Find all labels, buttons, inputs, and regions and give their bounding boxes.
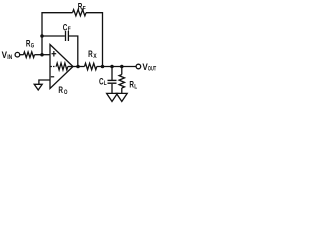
wire RL to ground — [121, 88, 123, 93]
node input junction dot — [40, 53, 44, 57]
resistor RL — [119, 75, 124, 89]
terminal VIN — [15, 52, 20, 57]
wire RG to op-amp input — [35, 54, 51, 56]
node RF feedback junction dot — [101, 65, 105, 69]
svg-text:OUT: OUT — [148, 66, 156, 73]
op-amp plus input sign — [52, 53, 57, 55]
wire VIN to RG — [20, 54, 24, 56]
wire RX to VOUT terminal — [97, 66, 136, 68]
svg-text:F: F — [83, 6, 86, 13]
svg-text:L: L — [134, 83, 137, 90]
op-amp U1 triangle — [50, 45, 73, 89]
op-amp minus input sign — [51, 76, 54, 78]
wire top feedback loop left segment — [42, 13, 73, 55]
resistor RX — [85, 63, 97, 69]
wire CL branch — [111, 67, 113, 81]
svg-text:X: X — [93, 53, 97, 60]
node junction dot CF/feedback — [40, 34, 44, 38]
wire op-amp output to RX — [73, 66, 85, 68]
node CL junction dot — [110, 65, 114, 69]
resistor RG — [24, 52, 35, 58]
wire CL to ground — [111, 84, 113, 93]
wire top feedback loop right segment — [86, 13, 103, 67]
ground RL — [116, 93, 127, 101]
svg-text:F: F — [68, 26, 71, 33]
internal dashed lead to RO — [50, 66, 56, 68]
svg-text:IN: IN — [7, 54, 12, 61]
svg-text:G: G — [31, 42, 34, 49]
capacitor CF — [65, 31, 67, 41]
terminal VOUT — [136, 64, 141, 69]
capacitor CL — [108, 79, 117, 81]
wire RL branch — [121, 67, 123, 75]
node RL junction dot — [120, 65, 124, 69]
wire CF branch right down to output node — [69, 36, 78, 67]
wire minus input to ground — [39, 80, 50, 84]
svg-text:O: O — [64, 89, 68, 96]
svg-text:R: R — [58, 85, 63, 96]
resistor RO inside op-amp — [56, 63, 68, 70]
svg-text:R: R — [88, 49, 93, 60]
node output dot CF junction — [76, 65, 80, 69]
resistor RF — [73, 10, 87, 16]
wire CF branch left — [42, 35, 65, 37]
svg-text:L: L — [104, 80, 107, 87]
wire RO to apex — [68, 66, 73, 68]
ground CL — [107, 93, 118, 101]
ground op-amp — [34, 84, 42, 90]
